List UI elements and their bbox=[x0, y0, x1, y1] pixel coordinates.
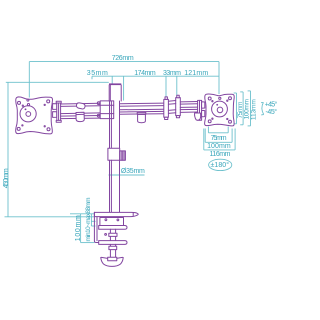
dimension row 35/174/33/121 bbox=[87, 70, 219, 101]
right plate top hole bbox=[219, 97, 221, 99]
dimension clamp 100mm bbox=[70, 214, 96, 243]
svg-text:Ø35mm: Ø35mm bbox=[121, 168, 145, 175]
svg-text:min10~max88mm: min10~max88mm bbox=[85, 198, 92, 242]
pole collar knob bbox=[108, 148, 126, 160]
svg-text:33mm: 33mm bbox=[163, 70, 181, 77]
right arm tension knob bbox=[137, 112, 146, 122]
pole clamp bracket bbox=[97, 101, 113, 119]
svg-text:726mm: 726mm bbox=[112, 55, 134, 62]
svg-text:100mm: 100mm bbox=[207, 143, 231, 150]
left plate top hole bbox=[27, 99, 29, 101]
annotation tilt +45/-45 bbox=[261, 101, 277, 116]
left arm bars bbox=[61, 103, 101, 118]
right arm bars bbox=[120, 103, 164, 114]
elbow joint bbox=[164, 95, 181, 119]
cable hook bbox=[195, 113, 201, 120]
left plate screw hole BL bbox=[17, 127, 20, 130]
right plate bracket bbox=[198, 100, 202, 120]
left arm knob top bbox=[76, 103, 85, 109]
clamp upper body bbox=[100, 218, 124, 226]
svg-text:35mm: 35mm bbox=[87, 70, 108, 77]
dimension plate-bottom 75mm bbox=[208, 127, 228, 143]
pole lower section bbox=[110, 160, 120, 212]
right plate central boss bbox=[212, 101, 228, 117]
svg-text:116mm: 116mm bbox=[210, 151, 231, 158]
svg-text:174mm: 174mm bbox=[134, 70, 156, 77]
svg-text:100mm: 100mm bbox=[75, 215, 82, 241]
clamp lower plate bbox=[99, 241, 127, 245]
left plate central boss bbox=[20, 106, 36, 122]
svg-text:100mm: 100mm bbox=[244, 99, 251, 120]
left plate screw hole TR bbox=[47, 100, 50, 103]
svg-text:+45°: +45° bbox=[265, 101, 278, 109]
clamp knob bbox=[101, 257, 124, 266]
left plate screw hole BR bbox=[47, 128, 50, 131]
pole upper section bbox=[110, 101, 120, 148]
left plate screw hole TL bbox=[18, 101, 21, 104]
right plate screw hole TL bbox=[208, 97, 211, 100]
svg-text:-45°: -45° bbox=[266, 108, 278, 116]
right plate hinge knuckles bbox=[202, 102, 205, 117]
right plate screw hole TR bbox=[229, 97, 232, 100]
clamp top blade bbox=[94, 212, 138, 216]
dimension plate-right 113mm bbox=[248, 91, 258, 126]
clamp lower body bbox=[105, 229, 117, 240]
left arm hinge bracket bbox=[56, 101, 61, 122]
clamp middle jaw bbox=[99, 226, 127, 230]
svg-text:75mm: 75mm bbox=[211, 135, 227, 142]
svg-text:113mm: 113mm bbox=[251, 99, 258, 121]
left VESA plate outline bbox=[16, 97, 53, 134]
dimension plate-bottom 116mm bbox=[204, 129, 235, 159]
left plate hinge knuckles bbox=[53, 104, 57, 118]
right plate screw hole BR bbox=[229, 120, 232, 123]
svg-text:121mm: 121mm bbox=[184, 70, 208, 77]
svg-text:±180°: ±180° bbox=[211, 161, 230, 169]
dimension plate-bottom 100mm bbox=[205, 129, 232, 150]
clamp left wall bbox=[94, 212, 98, 242]
left arm knob bottom bbox=[76, 112, 84, 121]
clamp screw shaft bbox=[109, 244, 117, 257]
dimension 450mm vertical bbox=[3, 82, 109, 217]
right plate screw hole BL bbox=[208, 120, 211, 123]
pole top cap bbox=[109, 83, 121, 101]
dimension 726mm line bbox=[29, 55, 219, 97]
annotation rotation 180 bbox=[209, 159, 232, 170]
outer arm bars bbox=[180, 102, 197, 113]
dimension plate-right 100mm bbox=[240, 92, 250, 125]
dimension clamp min10~max88mm bbox=[85, 198, 96, 242]
dimension plate-right 75mm bbox=[234, 93, 245, 124]
label diameter 35mm bbox=[109, 168, 146, 175]
right VESA plate outline bbox=[205, 94, 235, 126]
svg-text:450mm: 450mm bbox=[3, 168, 10, 188]
